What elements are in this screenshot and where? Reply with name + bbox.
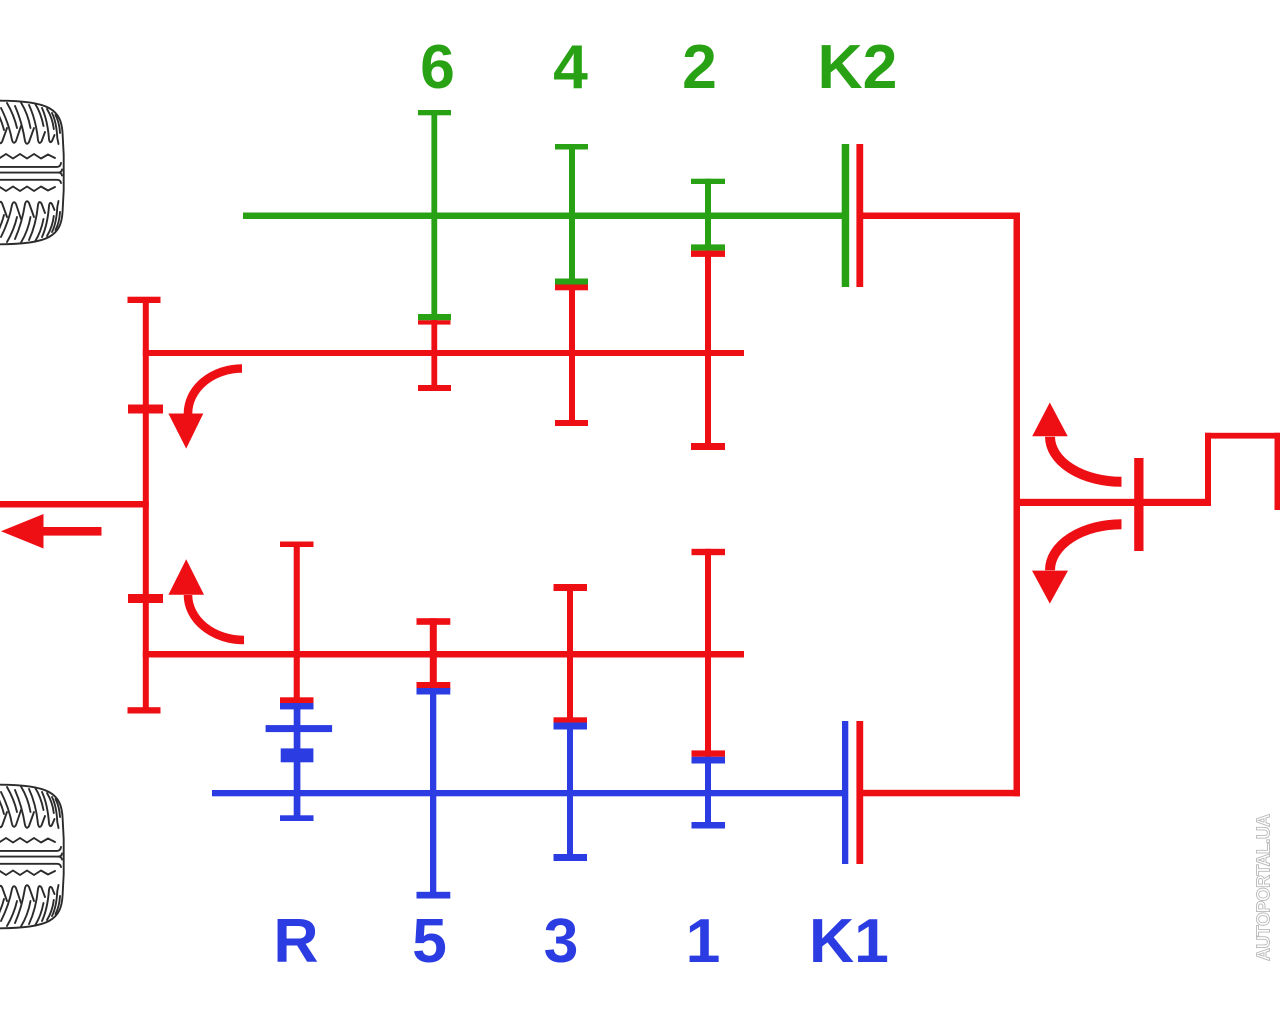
- svg-text:R: R: [273, 906, 318, 976]
- svg-text:6: 6: [420, 32, 455, 102]
- svg-text:2: 2: [682, 32, 717, 102]
- svg-text:K1: K1: [809, 906, 889, 976]
- svg-text:5: 5: [412, 906, 447, 976]
- svg-text:3: 3: [544, 906, 579, 976]
- svg-text:K2: K2: [818, 32, 898, 102]
- svg-text:4: 4: [553, 32, 588, 102]
- svg-text:1: 1: [686, 906, 721, 976]
- svg-text:AUTOPORTAL.UA: AUTOPORTAL.UA: [1254, 814, 1274, 961]
